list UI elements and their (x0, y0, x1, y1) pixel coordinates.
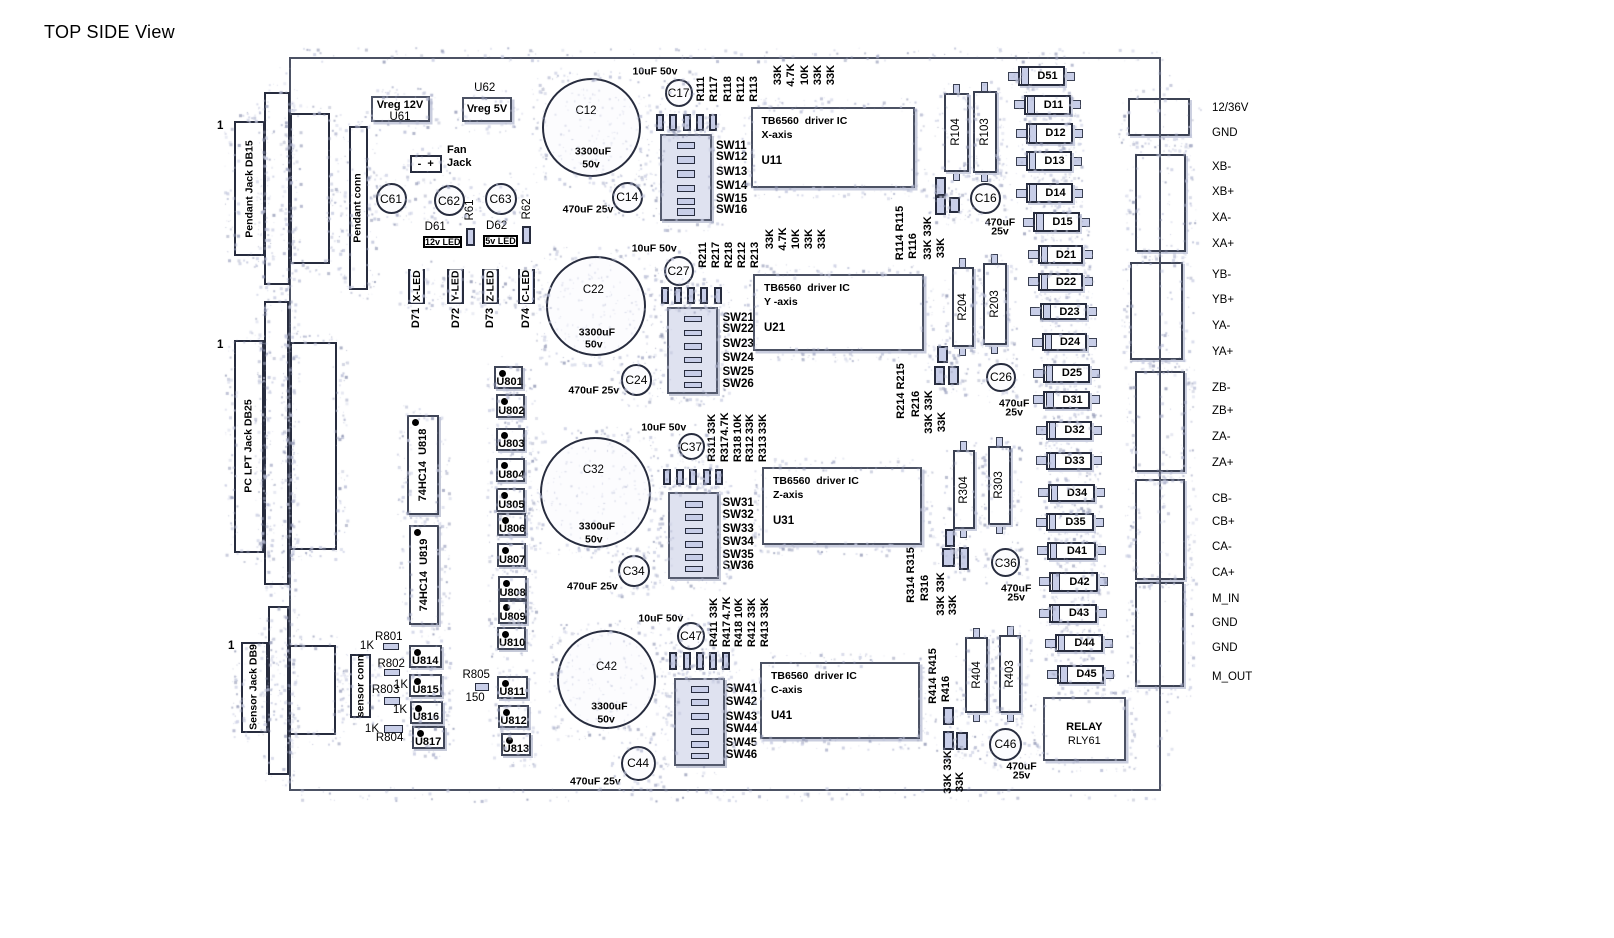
optocoupler U805 (496, 488, 525, 512)
diode D12 (1016, 129, 1027, 138)
pull-up resistor network C row (669, 652, 677, 670)
capacitor C46 (989, 728, 1022, 761)
X motor terminal block (1135, 154, 1186, 252)
diode D35 (1036, 518, 1047, 527)
resistor R103 (981, 82, 988, 92)
TB6560 driver IC U31 Z-axis (762, 467, 922, 545)
R61 label (464, 199, 476, 220)
diode D44 (1045, 639, 1056, 648)
diode D13 (1016, 157, 1027, 166)
Pendant Jack DB15 label (244, 140, 255, 237)
1K label R802 (394, 679, 408, 691)
power terminal block (1128, 98, 1190, 136)
optocoupler U812 (498, 705, 529, 728)
diode D23 (1030, 307, 1041, 316)
resistor R803 label (372, 684, 400, 696)
Pendant Jack DB15 labeled box (234, 121, 265, 256)
pin 1 marker DB9 (228, 640, 234, 652)
resistor labels R411 R417 R418 R412 R413 (710, 621, 722, 647)
74HC14 U819 label (419, 539, 431, 612)
resistor R802 (384, 669, 400, 677)
diode D15 (1023, 218, 1034, 227)
PC LPT Jack DB25 label (243, 399, 254, 492)
resistor R404 (973, 628, 980, 638)
resistor value labels X row (773, 65, 785, 85)
Sensor Jack DB9 label (248, 644, 259, 730)
sensor conn label (355, 655, 366, 717)
optocoupler U810 (497, 627, 526, 651)
Fan Jack label (447, 145, 467, 157)
electrolytic capacitor C42 (557, 630, 656, 729)
resistor R804 (384, 725, 403, 733)
capacitor C36 (991, 548, 1020, 577)
Pendant conn label (352, 173, 363, 242)
DIP switch block C axis (674, 678, 725, 765)
optocoupler U801 (494, 366, 523, 390)
LED D73 Z-LED (482, 269, 499, 304)
resistor R805 (475, 683, 489, 691)
12v LED D61 (423, 236, 462, 248)
diode D41 (1037, 546, 1048, 555)
1K label R803 (393, 703, 407, 715)
resistor R204 (959, 258, 966, 268)
74HC14 U818 label (418, 429, 430, 502)
resistor R62 (522, 226, 531, 245)
U62 label (474, 81, 495, 93)
sense resistors group Y row (937, 346, 948, 363)
optocoupler U803 (496, 428, 525, 452)
optocoupler U817 (412, 726, 445, 749)
DIP switch block Z axis (668, 492, 719, 579)
resistor labels R111 R117 R118 R112 R113 (696, 76, 708, 101)
C26 value label (999, 398, 1029, 409)
C44 value label (570, 776, 621, 787)
C46 value label (1006, 761, 1036, 772)
fan jack connector (410, 155, 442, 173)
sensor conn header (350, 654, 371, 718)
sense resistors group Z row (945, 529, 956, 547)
LED D61 label (425, 221, 446, 233)
pull-up resistor network Y row (661, 287, 669, 305)
resistor value labels Z row (708, 413, 720, 433)
PCB board outline (289, 57, 1161, 791)
diode D21 (1028, 250, 1039, 259)
resistor R805 label (462, 669, 490, 681)
DIP switch labels Z (723, 497, 754, 509)
optocoupler U808 (498, 576, 527, 600)
LED D62 label (486, 220, 507, 232)
diode D14 (1016, 189, 1027, 198)
optocoupler U816 (410, 701, 443, 724)
diode D11 (1014, 100, 1025, 109)
C34 value label (567, 581, 618, 592)
capacitor C63 (485, 183, 517, 215)
diode D31 (1033, 395, 1044, 404)
resistor labels R211 R217 R218 R212 R213 (698, 242, 710, 268)
diode D45 (1047, 670, 1058, 679)
74HC14 U818 (407, 415, 440, 515)
Y motor terminal block (1130, 262, 1183, 360)
C14 value label (563, 204, 614, 215)
TB6560 driver IC U41 C-axis (760, 662, 920, 739)
resistor R104 (953, 84, 960, 94)
capacitor C44 (621, 746, 656, 781)
resistor R303 (996, 437, 1003, 447)
resistor value labels Y row (765, 228, 777, 248)
C24 value label (568, 385, 619, 396)
Sensor jack edge connector body (268, 606, 289, 775)
LPT jack inner shroud (290, 342, 337, 550)
TB6560 driver IC U11 X-axis (751, 107, 916, 188)
capacitor C62 (434, 185, 465, 216)
capacitor C34 (618, 555, 650, 587)
Z motor terminal block (1135, 371, 1185, 472)
Sensor jack inner shroud (289, 645, 336, 735)
optocoupler U809 (498, 600, 527, 624)
Pendant jack edge connector body (264, 92, 290, 285)
resistor R403 (1007, 626, 1014, 636)
DIP switch block X axis (660, 134, 712, 221)
LED D72 Y-LED (447, 269, 464, 304)
10uF cap label Y row (632, 243, 677, 254)
optocoupler U802 (496, 394, 525, 418)
DIP switch labels C (726, 682, 757, 694)
capacitor C47 (677, 622, 705, 650)
capacitor C37 (678, 433, 705, 460)
optocoupler U804 (496, 458, 525, 482)
74HC14 U819 (409, 525, 440, 626)
title (44, 22, 175, 43)
Sensor Jack DB9 labeled box (241, 642, 268, 733)
electrolytic capacitor C12 (542, 78, 641, 177)
resistor R801 label (375, 631, 403, 643)
sense resistors group C row (943, 707, 954, 726)
terminal pin labels (1212, 101, 1248, 113)
diode D42 (1039, 577, 1050, 586)
electrolytic capacitor C32 (540, 437, 651, 548)
10uF cap label X row (633, 66, 678, 77)
Pendant jack inner shroud (290, 113, 330, 264)
resistor R801 (383, 643, 399, 651)
C motor terminal block (1135, 479, 1185, 580)
C36 value label (1001, 583, 1031, 594)
voltage regulator U62 (462, 97, 512, 122)
resistor R802 label (377, 657, 405, 669)
diode D43 (1039, 609, 1050, 618)
capacitor C61 (376, 183, 407, 214)
5v LED D62 (483, 235, 518, 247)
diode D33 (1036, 456, 1047, 465)
C16 value label (985, 217, 1015, 228)
resistor labels R311 R317 R318 R312 R313 (708, 436, 720, 462)
DIP switch block Y axis (667, 307, 718, 394)
resistor R804 label (376, 732, 404, 744)
electrolytic capacitor C22 (546, 256, 646, 356)
voltage regulator U61 (371, 96, 430, 123)
resistor R304 (960, 441, 967, 451)
sense resistors group X row (935, 177, 946, 196)
optocoupler U806 (497, 513, 526, 537)
pull-up resistor network Z row (663, 469, 671, 486)
relay RLY61 (1043, 697, 1126, 761)
pin 1 marker DB25 (217, 339, 223, 351)
capacitor C17 (665, 79, 693, 107)
capacitor C26 (986, 363, 1015, 392)
R62 label (520, 198, 532, 219)
PC LPT Jack DB25 labeled box (234, 340, 264, 553)
aux terminal block (1135, 582, 1184, 687)
LED D71 X-LED (408, 269, 425, 304)
capacitor C16 (970, 183, 1001, 214)
10uF cap label C row (638, 613, 683, 624)
diode D32 (1036, 426, 1047, 435)
optocoupler U814 (409, 645, 442, 668)
diode D24 (1032, 338, 1043, 347)
diode D51 (1008, 72, 1019, 81)
resistor R203 (991, 254, 998, 264)
DIP switch labels X (716, 140, 747, 152)
optocoupler U811 (497, 676, 528, 699)
pin 1 marker DB15 (217, 120, 223, 132)
capacitor C24 (621, 364, 653, 396)
LPT jack edge connector body (264, 301, 289, 585)
DIP switch labels Y (723, 312, 754, 324)
optocoupler U815 (409, 674, 442, 697)
diode D25 (1033, 369, 1044, 378)
diode D34 (1038, 488, 1049, 497)
capacitor C14 (612, 182, 643, 213)
optocoupler U807 (497, 543, 526, 567)
TB6560 driver IC U21 Y-axis (753, 274, 924, 351)
resistor value labels C row (710, 598, 722, 618)
Pendant conn header (349, 126, 369, 290)
pull-up resistor network X row (656, 114, 664, 131)
resistor R803 (384, 697, 400, 705)
optocoupler U813 (501, 733, 532, 756)
10uF cap label Z row (641, 422, 686, 433)
150 value label (466, 692, 485, 704)
board right edge line through blocks (1159, 57, 1161, 791)
diode D22 (1028, 277, 1039, 286)
capacitor C27 (664, 256, 694, 286)
resistor R61 (466, 228, 475, 247)
LED D74 C-LED (518, 269, 535, 304)
